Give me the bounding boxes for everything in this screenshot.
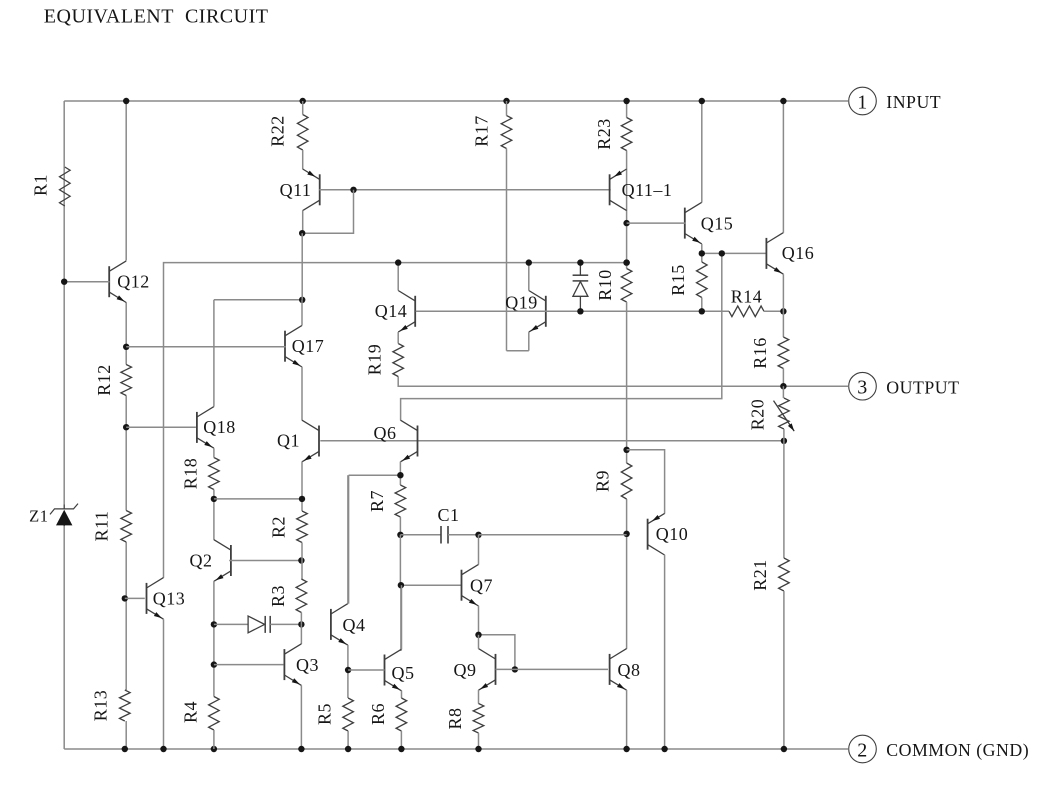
svg-text:Q9: Q9 bbox=[454, 660, 477, 680]
junction R23 / top rail bbox=[623, 98, 629, 104]
transistor Q8 bbox=[610, 649, 627, 691]
resistor R17 bbox=[501, 116, 512, 149]
svg-text:Q14: Q14 bbox=[375, 301, 408, 321]
label Q11 bbox=[280, 180, 312, 200]
label Q6 bbox=[374, 423, 397, 443]
svg-text:Q2: Q2 bbox=[190, 551, 213, 571]
svg-text:Q11: Q11 bbox=[280, 180, 312, 200]
wire left rail x=64 bbox=[63, 101, 65, 749]
junction R6 / bottom rail bbox=[398, 746, 404, 752]
wire Q15 base bbox=[627, 222, 686, 224]
transistor Q14 bbox=[398, 291, 415, 333]
transistor Q16 bbox=[766, 233, 783, 275]
svg-text:R23: R23 bbox=[594, 118, 614, 150]
junction Q16 base tap bbox=[719, 250, 725, 256]
wire Q11 collector loop bbox=[303, 190, 354, 233]
transistor Q9 bbox=[479, 649, 496, 691]
junction R18 bottom tap bbox=[211, 496, 217, 502]
junction Q5 base tap bbox=[345, 667, 351, 673]
wire R8 to rail bbox=[478, 733, 480, 749]
svg-text:R4: R4 bbox=[181, 701, 201, 723]
junction Q3 emitter / bottom rail bbox=[298, 746, 304, 752]
label R21 bbox=[750, 559, 770, 591]
label R22 bbox=[268, 115, 288, 147]
terminal 3 OUTPUT bbox=[849, 372, 960, 400]
label C1 bbox=[437, 505, 459, 525]
transistor Q13 bbox=[147, 578, 164, 620]
wire Q2 base bbox=[229, 560, 301, 562]
wire R7 bottom to C1 node bbox=[399, 517, 401, 535]
svg-text:Q10: Q10 bbox=[656, 524, 689, 544]
wire y=300 link bbox=[214, 299, 302, 301]
label R8 bbox=[445, 707, 465, 729]
resistor R4 bbox=[209, 697, 220, 731]
svg-text:R17: R17 bbox=[472, 115, 492, 147]
wire Q13 base bbox=[125, 597, 145, 599]
wire R14 right to Q16 emitter bbox=[764, 310, 783, 312]
svg-text:3: 3 bbox=[857, 377, 868, 399]
wire R4 to rail bbox=[213, 730, 215, 749]
wire R3 to D1 node bbox=[300, 613, 302, 625]
label Q3 bbox=[296, 655, 319, 675]
wire R2-R3 link bbox=[301, 543, 303, 580]
transistor Q17 bbox=[285, 325, 302, 367]
label R1 bbox=[31, 174, 51, 196]
wire Q10 collector to rail bbox=[664, 555, 666, 749]
svg-text:Q12: Q12 bbox=[117, 271, 150, 291]
resistor R1 bbox=[60, 167, 71, 206]
transistor Q7 bbox=[462, 564, 479, 606]
svg-text:Q5: Q5 bbox=[392, 663, 415, 683]
diode D2 bbox=[573, 263, 589, 312]
label Q7 bbox=[470, 576, 493, 596]
wire R18-R2 link y=499 bbox=[214, 498, 302, 500]
label Q18 bbox=[203, 417, 236, 437]
junction Q14 collector / y=263 bus bbox=[395, 259, 401, 265]
resistor R7 bbox=[395, 485, 406, 517]
label R20 bbox=[748, 399, 768, 431]
resistor R16 bbox=[778, 337, 789, 369]
label R17 bbox=[472, 115, 492, 147]
junction R4 / bottom rail bbox=[211, 746, 217, 752]
label R7 bbox=[367, 490, 387, 512]
svg-text:R12: R12 bbox=[94, 364, 114, 396]
wire Q1/Q6 base to R20 bottom bbox=[320, 440, 784, 442]
svg-text:2: 2 bbox=[857, 739, 868, 761]
svg-text:Q18: Q18 bbox=[203, 417, 236, 437]
wire Q8 emitter to rail bbox=[626, 690, 628, 749]
svg-text:Q7: Q7 bbox=[470, 576, 493, 596]
junction Q12 base / left rail bbox=[61, 279, 67, 285]
wire Q7 collector up bbox=[478, 535, 480, 565]
svg-text:R21: R21 bbox=[750, 559, 770, 591]
label Q1 bbox=[277, 431, 300, 451]
capacitor C1 bbox=[400, 526, 478, 544]
transistor Q12 bbox=[109, 261, 126, 303]
svg-text:Q11–1: Q11–1 bbox=[622, 180, 673, 200]
wire Q1 emitter down bbox=[301, 462, 303, 511]
wire Q3 emitter to rail bbox=[300, 685, 302, 749]
junction Q7 base tap bbox=[398, 582, 404, 588]
junction Q18 base tap bbox=[123, 424, 129, 430]
svg-text:R15: R15 bbox=[668, 264, 688, 296]
wire Q9-Q8 base bus bbox=[496, 668, 609, 670]
wire Q7 base column bbox=[400, 535, 461, 651]
wire Q5 emitter to R6 bbox=[401, 691, 403, 698]
wire Q6-collector to Q15-emitter net bbox=[401, 253, 722, 420]
svg-text:COMMON (GND): COMMON (GND) bbox=[886, 740, 1029, 761]
resistor R3 bbox=[296, 579, 307, 613]
resistor R5 bbox=[343, 698, 354, 731]
junction R8 / bottom rail bbox=[475, 746, 481, 752]
svg-text:R20: R20 bbox=[748, 399, 768, 431]
svg-text:R22: R22 bbox=[268, 115, 288, 147]
junction R21 / bottom rail bbox=[781, 746, 787, 752]
diode D1 bbox=[214, 616, 302, 633]
junction Q19 collector / y=263 bus bbox=[526, 259, 532, 265]
wire Q6 emitter node bbox=[349, 462, 401, 604]
wire Q14 collector up bbox=[397, 263, 399, 291]
transistor Q19 bbox=[529, 291, 546, 333]
label R2 bbox=[269, 516, 289, 538]
resistor R11 bbox=[121, 511, 132, 543]
wire Q5 collector up bbox=[401, 585, 403, 649]
svg-text:Q16: Q16 bbox=[782, 243, 815, 263]
wire x=626.6 column bbox=[626, 101, 628, 649]
label Q8 bbox=[618, 660, 641, 680]
svg-text:Q3: Q3 bbox=[296, 655, 319, 675]
label Q15 bbox=[701, 214, 734, 234]
label R11 bbox=[92, 511, 112, 542]
resistor R13 bbox=[120, 690, 131, 721]
label R5 bbox=[315, 703, 335, 725]
junction Q11 base tie bbox=[350, 187, 356, 193]
wire R5 to rail bbox=[347, 731, 349, 749]
wire Q4 collector up bbox=[347, 475, 349, 604]
svg-text:R18: R18 bbox=[181, 458, 201, 490]
resistor R23 bbox=[621, 118, 632, 151]
svg-text:R8: R8 bbox=[445, 707, 465, 729]
junction Q3 base tap bbox=[211, 661, 217, 667]
svg-text:R9: R9 bbox=[593, 470, 613, 492]
svg-text:Q13: Q13 bbox=[153, 589, 186, 609]
label R14 bbox=[731, 287, 763, 307]
wire Q18 base bbox=[126, 426, 196, 428]
label R4 bbox=[181, 701, 201, 723]
junction R17 / top rail bbox=[503, 98, 509, 104]
wire Q5 base bbox=[348, 669, 384, 671]
wire Q15 collector up bbox=[701, 101, 703, 203]
svg-text:R2: R2 bbox=[269, 516, 289, 538]
wire Q3 base bbox=[214, 664, 284, 666]
label Z1 bbox=[29, 507, 48, 526]
junction C1 right / Q7 collector bbox=[475, 532, 481, 538]
transistor Q6 bbox=[401, 420, 418, 462]
label Q11-1 bbox=[622, 180, 673, 200]
label Q16 bbox=[782, 243, 815, 263]
svg-text:Z1: Z1 bbox=[29, 507, 48, 526]
wire Q11-collector to Q17 node bbox=[301, 233, 303, 300]
wire R18 bottom to Q2 collector bbox=[213, 490, 215, 540]
zener Z1 bbox=[50, 504, 78, 526]
transistor Q3 bbox=[284, 644, 301, 686]
wire Q4 emitter down bbox=[347, 645, 349, 698]
resistor R10 bbox=[621, 269, 632, 303]
label Q4 bbox=[343, 615, 366, 635]
wire R15 bottom stem bbox=[701, 298, 703, 312]
wire Q12 base bbox=[64, 281, 109, 283]
wire Q13-collector bus y=263 bbox=[164, 263, 627, 578]
junction D2 bottom / y=311 bus bbox=[577, 308, 583, 314]
wire OUTPUT net bbox=[398, 377, 848, 387]
resistor R9 bbox=[621, 463, 632, 499]
junction Q15 base node bbox=[623, 220, 629, 226]
junction R22 / top rail bbox=[300, 98, 306, 104]
junction Q6 emitter / R7 top bbox=[397, 472, 403, 478]
resistor R21 bbox=[779, 558, 790, 591]
resistor R15 bbox=[697, 262, 708, 298]
wire Q14 emitter to R19 bbox=[397, 332, 399, 343]
resistor R20 (adjustable) bbox=[774, 398, 795, 431]
wire bottom rail (COMMON) bbox=[64, 748, 848, 750]
label Q19 bbox=[505, 292, 538, 312]
junction Q8 emitter / bottom rail bbox=[623, 746, 629, 752]
svg-text:R11: R11 bbox=[92, 511, 112, 542]
resistor R14 bbox=[729, 306, 764, 317]
label R10 bbox=[595, 269, 615, 301]
svg-text:Q4: Q4 bbox=[343, 615, 366, 635]
wire Q9 emitter to R8 bbox=[478, 690, 480, 704]
transistor Q5 bbox=[385, 649, 402, 691]
junction Q7 emitter / Q9 collector bbox=[475, 632, 481, 638]
svg-text:R7: R7 bbox=[367, 490, 387, 512]
wire Q3 collector up bbox=[300, 624, 302, 644]
svg-text:R5: R5 bbox=[315, 703, 335, 725]
label Q5 bbox=[392, 663, 415, 683]
junction R10 top / y=263 bus end bbox=[623, 259, 629, 265]
transistor Q15 bbox=[685, 202, 702, 244]
wire C1 node to Q10 base bbox=[479, 534, 627, 536]
junction R5 / bottom rail bbox=[345, 746, 351, 752]
svg-text:Q8: Q8 bbox=[618, 660, 641, 680]
label Q13 bbox=[153, 589, 186, 609]
transistor Q11-1 bbox=[610, 169, 627, 211]
wire Q19 emitter down bbox=[528, 332, 530, 351]
svg-text:OUTPUT: OUTPUT bbox=[886, 377, 959, 397]
wire R6 to rail bbox=[400, 731, 402, 749]
label R13 bbox=[91, 690, 111, 722]
wire Q19 collector up bbox=[528, 263, 530, 291]
label Q9 bbox=[454, 660, 477, 680]
junction D1 anode tap bbox=[211, 621, 217, 627]
junction R9 top node bbox=[623, 447, 629, 453]
wire R21 to rail bbox=[783, 591, 785, 749]
terminal 2 COMMON (GND) bbox=[849, 735, 1029, 763]
junction Q15 emitter / R15 top bbox=[699, 250, 705, 256]
wire R20 to R21 bbox=[783, 429, 785, 558]
junction Q15 collector / top rail bbox=[699, 98, 705, 104]
junction R9 bottom / Q10 base bbox=[623, 531, 629, 537]
junction R2/R3/Q2 base bbox=[298, 557, 304, 563]
junction D2 top / y=263 bus bbox=[577, 259, 583, 265]
wire Q11 base to Q11-1 bbox=[319, 189, 610, 191]
svg-text:Q17: Q17 bbox=[292, 336, 325, 356]
label R15 bbox=[668, 264, 688, 296]
transistor Q11 bbox=[303, 169, 320, 211]
junction R13 / bottom rail bbox=[122, 746, 128, 752]
transistor Q10 bbox=[648, 513, 665, 555]
transistor Q2 bbox=[214, 540, 231, 582]
wire R22 stems bbox=[302, 101, 304, 169]
terminal 1 INPUT bbox=[849, 87, 941, 115]
junction R7 bottom / C1 left bbox=[397, 532, 403, 538]
junction y=300 / Q17-collector column bbox=[299, 297, 305, 303]
junction Q13 emitter / bottom rail bbox=[160, 746, 166, 752]
resistor R18 bbox=[209, 458, 220, 490]
junction Q10 collector / bottom rail bbox=[661, 746, 667, 752]
junction top rail / R1-Q12 column bbox=[123, 98, 129, 104]
label Q2 bbox=[190, 551, 213, 571]
svg-text:R6: R6 bbox=[368, 703, 388, 725]
wire Q15 emitter node bbox=[702, 244, 767, 262]
wire x=214 column upper bbox=[213, 300, 215, 407]
junction Q1 emitter / R18 link bbox=[299, 496, 305, 502]
svg-text:Q19: Q19 bbox=[505, 292, 538, 312]
junction Q17 base tap bbox=[123, 344, 129, 350]
label Q17 bbox=[292, 336, 325, 356]
wire x=126 column bbox=[125, 101, 127, 749]
label R23 bbox=[594, 118, 614, 150]
junction D1 cathode / Q4 base node bbox=[298, 621, 304, 627]
svg-text:R10: R10 bbox=[595, 269, 615, 301]
wire Q17 emitter to Q1 collector bbox=[301, 367, 303, 421]
label R18 bbox=[181, 458, 201, 490]
wire R16 to OUTPUT wire bbox=[782, 369, 784, 387]
wire R9 elbow to Q10 emitter bbox=[627, 450, 665, 514]
label R3 bbox=[268, 585, 288, 607]
transistor Q1 bbox=[302, 420, 319, 462]
resistor R8 bbox=[473, 704, 484, 734]
resistor R19 bbox=[393, 344, 404, 377]
resistor R12 bbox=[121, 365, 132, 396]
wire Q16 emitter down bbox=[782, 274, 784, 337]
svg-text:R13: R13 bbox=[91, 690, 111, 722]
svg-text:R19: R19 bbox=[365, 344, 385, 376]
svg-text:C1: C1 bbox=[437, 505, 459, 525]
label Q10 bbox=[656, 524, 689, 544]
label R16 bbox=[750, 337, 770, 369]
junction R16 / OUTPUT bbox=[780, 383, 786, 389]
svg-text:Q1: Q1 bbox=[277, 431, 300, 451]
wire top rail (INPUT) bbox=[64, 100, 848, 102]
junction Q13 base tap bbox=[122, 595, 128, 601]
wire Q9 collector up bbox=[478, 635, 480, 649]
junction R14 / Q16 emitter column bbox=[780, 308, 786, 314]
label R19 bbox=[365, 344, 385, 376]
label R12 bbox=[94, 364, 114, 396]
wire Q17 base bbox=[126, 346, 285, 348]
svg-text:INPUT: INPUT bbox=[886, 92, 941, 112]
resistor R6 bbox=[396, 698, 407, 731]
wire Q2 emitter down bbox=[213, 581, 215, 696]
svg-text:R14: R14 bbox=[731, 287, 763, 307]
resistor R2 bbox=[297, 511, 308, 543]
svg-text:Q15: Q15 bbox=[701, 214, 734, 234]
svg-text:Q6: Q6 bbox=[374, 423, 397, 443]
wire Q16 collector up bbox=[782, 101, 784, 233]
label Q12 bbox=[117, 271, 150, 291]
transistor Q4 bbox=[331, 604, 348, 646]
resistor R22 bbox=[297, 115, 308, 151]
label R6 bbox=[368, 703, 388, 725]
junction R15 bottom / y=311 bus bbox=[699, 308, 705, 314]
junction Q9-Q8 base bus tap bbox=[512, 666, 518, 672]
svg-text:EQUIVALENT CIRCUIT: EQUIVALENT CIRCUIT bbox=[44, 6, 269, 28]
wire Q18 emitter to R18 bbox=[213, 448, 215, 457]
svg-text:1: 1 bbox=[857, 91, 868, 113]
junction Q16 collector / top rail bbox=[780, 98, 786, 104]
wire Q14-Q19 base bus y=311 bbox=[416, 310, 729, 312]
svg-text:R1: R1 bbox=[31, 174, 51, 196]
wire OUTPUT to R20 bbox=[782, 386, 784, 398]
title bbox=[44, 6, 269, 28]
junction R20 bottom bbox=[781, 438, 787, 444]
junction Q11 collector node bbox=[299, 230, 305, 236]
wire Q7 emitter node bbox=[479, 606, 515, 670]
label R9 bbox=[593, 470, 613, 492]
label Q14 bbox=[375, 301, 408, 321]
wire Q17 collector up bbox=[301, 300, 303, 326]
wire R17 column bbox=[507, 101, 529, 351]
wire Q13 emitter to rail bbox=[163, 619, 165, 749]
junction y=263 bus / column bbox=[623, 259, 629, 265]
svg-text:R3: R3 bbox=[268, 585, 288, 607]
svg-text:R16: R16 bbox=[750, 337, 770, 369]
transistor Q18 bbox=[197, 407, 214, 449]
